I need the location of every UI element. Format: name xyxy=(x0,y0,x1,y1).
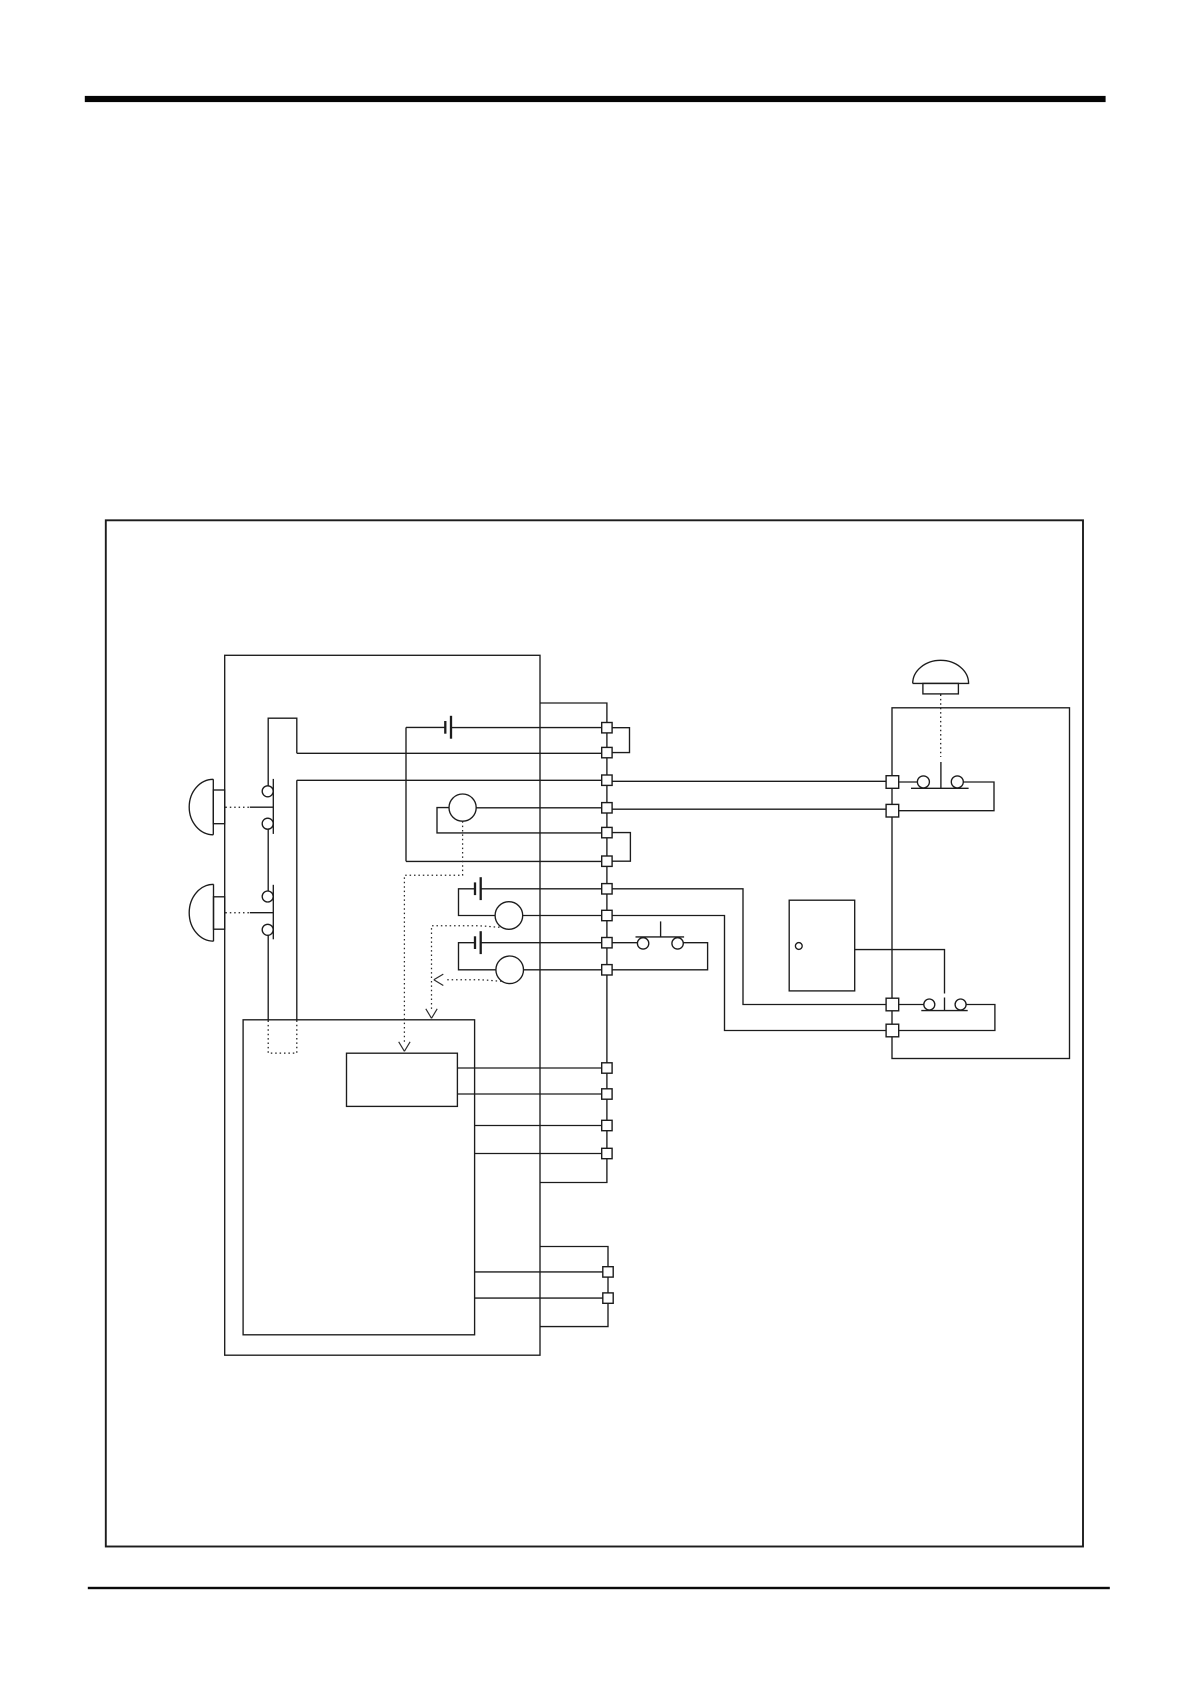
right station box xyxy=(892,708,1070,1059)
battery BT1 wire left xyxy=(406,726,445,728)
bridge terminals T1-T2 xyxy=(612,728,629,753)
wire lamp L1 to terminal T4 xyxy=(476,807,601,809)
battery BT3 long plate xyxy=(480,931,482,954)
bus right leg lower segment xyxy=(296,780,298,1020)
wire junction J1 to S4 xyxy=(898,781,918,783)
arrowhead into module xyxy=(399,1042,410,1052)
mech link lamp L3 dotted xyxy=(445,980,502,982)
door box D xyxy=(789,900,855,991)
arrowhead into link line xyxy=(434,974,444,985)
switch S3 plunger xyxy=(660,921,662,937)
terminal T10 xyxy=(602,965,612,975)
speaker SP2 link solid xyxy=(250,912,273,914)
switch S5 bar xyxy=(921,1010,967,1012)
bus bracket xyxy=(268,718,297,786)
speaker SP1 link solid xyxy=(250,806,273,808)
switch S5 plunger xyxy=(944,998,946,1011)
terminal T9 xyxy=(602,938,612,948)
terminal T5 xyxy=(602,827,612,837)
wire pcb to terminal T16 xyxy=(475,1297,603,1299)
switch S5 contact left xyxy=(924,999,935,1010)
contact S2 lower xyxy=(262,924,273,935)
wire module to terminal T11 xyxy=(457,1067,601,1069)
contact S1 lower xyxy=(262,818,273,829)
bridge terminals T5-T6 xyxy=(612,833,630,862)
PB1 stem dotted xyxy=(940,695,942,758)
terminal T4 xyxy=(602,803,612,813)
wire BT3 to terminal T9 xyxy=(481,942,602,944)
mech link lamp L1 dotted xyxy=(404,821,462,1044)
wire terminal T4 to junction J2 xyxy=(612,808,887,810)
terminal T2 xyxy=(602,747,612,757)
terminal block ladder xyxy=(540,703,607,1183)
wire terminal T3 to junction J1 xyxy=(612,780,887,782)
junction J1 xyxy=(886,776,899,789)
switch S3 contact right xyxy=(672,938,683,949)
wire terminal T8 to junction J4 xyxy=(612,916,887,1031)
lamp L2 xyxy=(495,902,523,930)
lower terminal block xyxy=(540,1247,608,1327)
wire BT2 bracket to lamp L2 xyxy=(459,889,496,916)
door link wire xyxy=(855,950,945,994)
bus left leg lower segment xyxy=(267,935,269,1020)
mushroom button PB1 cap xyxy=(913,660,969,683)
switch S3 bar xyxy=(636,936,685,938)
footer rule xyxy=(88,1587,1110,1589)
terminal T13 xyxy=(602,1120,612,1130)
wire S5 to junction J4 xyxy=(898,1005,995,1031)
switch S5 contact right xyxy=(955,999,966,1010)
wire S4 to junction J2 xyxy=(898,782,994,811)
speaker SP1 xyxy=(189,779,213,835)
wire BT2 to terminal T7 xyxy=(481,888,602,890)
wire bus to terminal T3 xyxy=(297,779,602,781)
wire pcb to terminal T14 xyxy=(475,1153,602,1155)
contact S1 actuator bar xyxy=(272,779,274,834)
speaker SP2 xyxy=(189,884,213,941)
terminal T16 xyxy=(603,1293,613,1303)
wire terminal T7 to junction J3 xyxy=(612,889,887,1005)
battery sub-box left edge xyxy=(405,727,407,861)
wire pcb to terminal T15 xyxy=(475,1271,603,1273)
battery BT1 short plate xyxy=(444,721,446,734)
battery BT3 short plate xyxy=(474,936,476,949)
battery BT2 short plate xyxy=(474,882,476,895)
switch S4 contact left xyxy=(917,776,929,788)
bus plug dotted outline xyxy=(268,1021,297,1054)
terminal T11 xyxy=(602,1063,612,1073)
door knob xyxy=(795,943,802,950)
terminal T14 xyxy=(602,1148,612,1158)
wire bus to terminal T2 xyxy=(297,752,602,754)
wire sub-box bottom to terminal T6 xyxy=(406,860,601,862)
arrowhead into pcb xyxy=(426,1009,437,1019)
switch S4 contact right xyxy=(951,776,963,788)
terminal T15 xyxy=(603,1267,613,1277)
switch S4 bar xyxy=(911,787,969,789)
mushroom button PB1 neck xyxy=(923,683,959,694)
speaker SP1 magnet xyxy=(213,790,224,824)
contact S2 upper xyxy=(262,891,273,902)
wire pcb to terminal T13 xyxy=(475,1125,602,1127)
terminal T6 xyxy=(602,856,612,866)
diagram frame xyxy=(106,520,1083,1546)
mech link lamp L2 dotted xyxy=(432,926,500,1012)
PB1 plunger xyxy=(940,762,942,788)
terminal T12 xyxy=(602,1089,612,1099)
speaker SP2 link dotted xyxy=(225,912,249,914)
wire junction J3 to S5 xyxy=(898,1004,924,1006)
battery BT2 long plate xyxy=(480,877,482,900)
terminal T3 xyxy=(602,775,612,785)
speaker SP1 link dotted xyxy=(225,806,249,808)
relay module box xyxy=(347,1053,458,1106)
wire module to terminal T12 xyxy=(457,1093,601,1095)
wire lamp L3 to terminal T10 xyxy=(524,969,602,971)
wire BT1 to terminal T1 xyxy=(451,727,601,729)
contact S1 upper xyxy=(262,786,273,797)
wire terminal T9 to switch S3 xyxy=(612,942,637,944)
header rule xyxy=(85,96,1106,102)
switch S3 contact left xyxy=(637,938,648,949)
battery BT1 long plate xyxy=(450,716,452,739)
wire lamp L1 return to terminal T5 xyxy=(437,808,601,833)
speaker SP2 magnet xyxy=(214,897,225,929)
wire BT3 bracket to lamp L3 xyxy=(459,943,496,970)
terminal T1 xyxy=(602,723,612,733)
junction J4 xyxy=(886,1024,899,1037)
control unit box xyxy=(225,655,540,1355)
lamp L3 xyxy=(496,956,524,984)
terminal T7 xyxy=(602,884,612,894)
contact S2 actuator bar xyxy=(272,885,274,940)
junction J3 xyxy=(886,998,899,1011)
bus left leg segment xyxy=(267,829,269,891)
wire switch S3 to terminal T10 xyxy=(612,943,707,970)
wire lamp L2 to terminal T8 xyxy=(523,915,602,917)
junction J2 xyxy=(886,804,899,817)
pcb lower box xyxy=(243,1020,475,1335)
terminal T8 xyxy=(602,910,612,920)
lamp L1 xyxy=(449,794,476,821)
